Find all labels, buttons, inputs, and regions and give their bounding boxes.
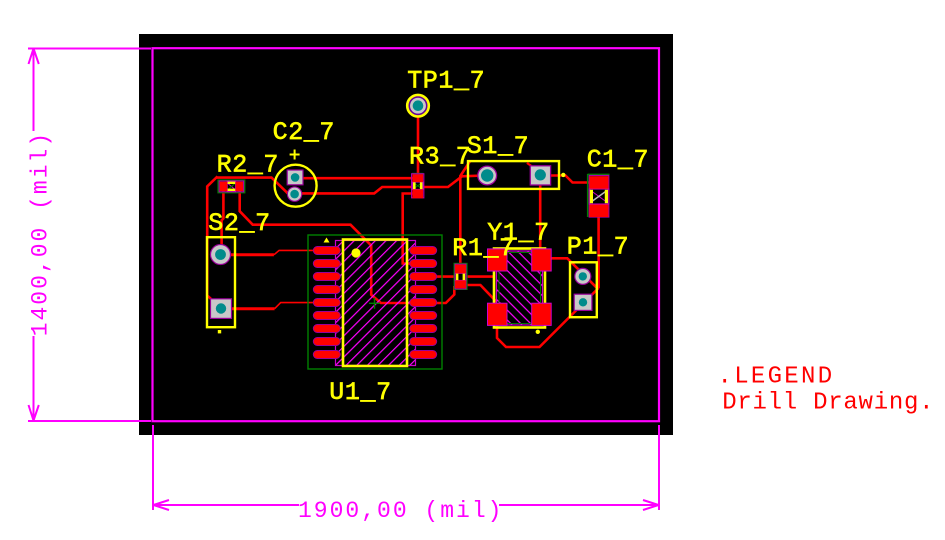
wire C2 bottom pad to R3 / S1 left pad [300, 176, 484, 194]
wire R2 left pad to S2 top pad [222, 189, 224, 254]
wire TP1 to R3 top pad [417, 106, 420, 176]
board outline [153, 48, 660, 421]
resistor R1 [454, 264, 467, 290]
svg-text:U1_7: U1_7 [329, 378, 391, 407]
svg-text:R3_7: R3_7 [409, 143, 471, 172]
wire node R2 to C2 bottom pad [216, 178, 288, 195]
board black area [139, 34, 673, 435]
svg-text:C2_7: C2_7 [273, 118, 335, 147]
wire C1 bottom pad down [597, 215, 600, 288]
svg-text:S1_7: S1_7 [467, 132, 529, 161]
switch S2 [207, 237, 235, 333]
dimension extension line right [658, 425, 660, 510]
svg-text:R1_7: R1_7 [452, 234, 514, 263]
svg-text:P1_7: P1_7 [567, 232, 629, 261]
IC U1 left pads [313, 247, 340, 359]
horizontal dimension arrow left [154, 500, 170, 510]
connector P1 [570, 262, 597, 317]
capacitor C1 [588, 174, 610, 217]
dimension extension line left [152, 425, 154, 510]
resistor R3 [412, 174, 424, 199]
capacitor C2 [275, 150, 317, 207]
wire S1 right pad to Y1 top-right pad [539, 183, 542, 250]
svg-text:R2_7: R2_7 [217, 150, 279, 179]
dimension extension line top [28, 48, 151, 50]
wire R3 bottom pad to U1 pin 2 [403, 194, 414, 264]
svg-text:1400,00 (mil): 1400,00 (mil) [27, 131, 53, 336]
wire R1 bottom pad to Y1 bottom-left pad [464, 285, 497, 302]
dimension extension line bottom [28, 420, 151, 422]
wire U1 pin 12 to R1 middle to Y1 body [435, 275, 494, 278]
IC U1 right pads [410, 247, 437, 359]
svg-text:Drill Drawing.: Drill Drawing. [722, 389, 934, 416]
horizontal dimension line [154, 504, 299, 506]
vertical dimension line [33, 49, 35, 131]
wire S2 bottom pad to U1 pin 5 [230, 307, 275, 310]
resistor R2 [218, 180, 245, 193]
wire S2 top pad to U1 pin 1 [229, 253, 274, 256]
svg-text:.LEGEND: .LEGEND [718, 364, 835, 391]
wire S1 right pad to C1 top pad [548, 176, 590, 183]
wire Y1 top-right pad to P1 top pad to C1 node to Y1 bottom-left pad [497, 258, 598, 347]
horizontal dimension arrow right [643, 500, 659, 510]
wire R2 right pad to U1 interior to R1 bottom pad [240, 189, 455, 303]
IC U1 [308, 235, 442, 369]
test point TP1 [407, 95, 429, 117]
switch S1 [468, 161, 566, 189]
vertical dimension arrow down [29, 405, 39, 421]
svg-text:TP1_7: TP1_7 [407, 66, 485, 95]
wire S1 left pad to R1 top pad [460, 162, 470, 267]
svg-text:S2_7: S2_7 [208, 209, 270, 238]
wire node R2 down to S2 bottom pad [207, 176, 217, 301]
wire C2 top pad to R3 top pad [301, 177, 413, 180]
crystal Y1 [488, 249, 552, 334]
svg-text:C1_7: C1_7 [587, 146, 649, 175]
svg-text:1900,00 (mil): 1900,00 (mil) [298, 498, 503, 524]
vertical dimension arrow up [29, 49, 39, 65]
